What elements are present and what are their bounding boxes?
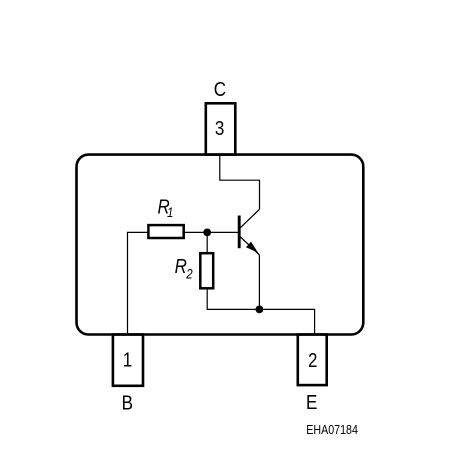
transistor Q1 emitter diagonal	[240, 237, 259, 255]
svg-text:1: 1	[123, 348, 132, 371]
pin 3 label	[215, 116, 224, 139]
wire from pin 1 to R1 (base input wire)	[128, 232, 149, 334]
wire from R1 to transistor base	[184, 231, 238, 233]
terminal label E	[306, 391, 317, 414]
pin 3 (collector lead)	[206, 103, 236, 154]
node junction dot (base node)	[203, 229, 211, 237]
svg-text:E: E	[306, 391, 317, 414]
svg-text:3: 3	[215, 116, 224, 139]
transistor Q1 base bar	[238, 216, 241, 249]
terminal label C	[214, 78, 226, 101]
svg-text:B: B	[122, 391, 133, 414]
transistor Q1 collector diagonal	[240, 209, 259, 228]
emitter junction dot	[256, 306, 264, 314]
resistor R2	[200, 253, 213, 288]
wire node to R2 top	[206, 232, 208, 253]
svg-text:2: 2	[308, 349, 317, 372]
label R1	[158, 195, 174, 220]
package body outline	[77, 155, 364, 335]
resistor R1	[148, 225, 183, 238]
svg-text:EHA07184: EHA07184	[306, 422, 358, 437]
svg-text:C: C	[214, 78, 226, 101]
pin 2 label	[308, 349, 317, 372]
terminal label B	[122, 391, 133, 414]
pin 2 (emitter lead)	[298, 335, 327, 386]
svg-text:R1: R1	[158, 195, 174, 220]
emitter wire down to rail	[258, 255, 260, 310]
pin 1 (base lead)	[113, 335, 143, 386]
label R2	[175, 255, 193, 282]
svg-text:R2: R2	[175, 255, 193, 282]
transistor Q1 emitter arrowhead	[246, 242, 258, 253]
wire R2 bottom to emitter rail	[207, 290, 314, 335]
pin 1 label	[123, 348, 132, 371]
collector wire from pin 3	[220, 155, 260, 209]
